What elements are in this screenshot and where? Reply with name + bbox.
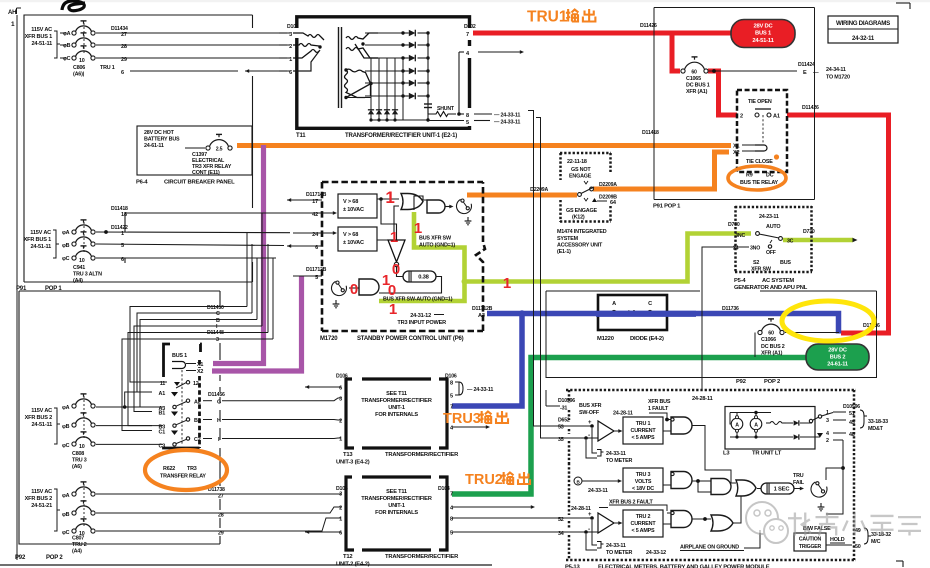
svg-text:1: 1 [121,231,124,237]
wire 28 to T11 pin 2 [96,44,290,46]
svg-text:0: 0 [392,261,400,278]
delay loop wire [379,277,442,294]
TRU 1 CURRENT box [623,417,663,444]
svg-text:B2: B2 [194,418,201,424]
svg-text:2: 2 [826,438,829,444]
svg-text:(K12): (K12) [572,215,585,221]
transformer core [338,27,340,108]
svg-text:-31: -31 [560,406,567,412]
wire lime S2 output [783,238,853,243]
svg-text:MD&T: MD&T [868,426,884,432]
wires G H I to T13 [222,398,341,401]
svg-text:10: 10 [79,58,85,64]
svg-text:33-18-33: 33-18-33 [868,419,888,425]
svg-text:C941: C941 [73,265,85,271]
middle AND gate [711,479,731,495]
svg-text:A1: A1 [773,114,780,120]
svg-text:AH: AH [8,10,16,16]
svg-text:24-28-11: 24-28-11 [692,396,713,402]
svg-text:(A6): (A6) [72,464,82,470]
vertical collector rails [370,58,372,120]
svg-text:—: — [813,70,819,76]
T13 transformer rectifier unit-3 box [346,379,447,448]
OR gate U-a [401,194,423,210]
svg-text:D2209A: D2209A [599,182,617,188]
svg-text:XFR (A1): XFR (A1) [686,89,708,95]
wire to 24-34-11 TO M1720 [709,70,797,72]
svg-text:6: 6 [339,531,342,537]
svg-text:6: 6 [121,70,124,76]
svg-text:< 5 AMPS: < 5 AMPS [632,435,656,441]
svg-text:POP 2: POP 2 [764,379,780,385]
svg-text:TRU 2: TRU 2 [72,542,87,548]
svg-text:P5-13: P5-13 [565,565,580,568]
green capsule 28V DC BUS 2 [806,344,869,370]
svg-text:D104: D104 [336,486,348,492]
orange ellipse around R622 [145,450,227,490]
svg-text:H: H [217,418,221,424]
circuit breaker C1397 2.5A [206,146,210,150]
svg-text:UNIT-1: UNIT-1 [388,405,405,411]
svg-text:1: 1 [826,410,829,416]
OR gate C [711,515,733,531]
svg-text:BUS: BUS [780,260,791,266]
svg-text:C807: C807 [72,536,84,542]
P5-13 module checkered border [566,389,856,392]
svg-text:50: 50 [855,544,861,550]
svg-text:C1066: C1066 [761,337,776,343]
svg-text:P92: P92 [15,555,26,561]
AND A3 output [692,518,711,520]
svg-text:TR3 INPUT POWER: TR3 INPUT POWER [397,320,446,326]
svg-text:V > 68: V > 68 [343,232,358,238]
svg-text:3NO: 3NO [750,246,760,252]
svg-text:24-33-12: 24-33-12 [646,550,666,556]
svg-text:28V DC HOT: 28V DC HOT [144,130,175,136]
svg-text:POP 2: POP 2 [46,555,63,561]
svg-text:5: 5 [450,531,453,537]
svg-text:24-51-11: 24-51-11 [32,422,53,428]
AND A1 output wire [692,426,736,484]
svg-text:TRU 3: TRU 3 [72,458,87,464]
svg-text:C: C [216,311,220,317]
svg-text:BUS XFR: BUS XFR [579,403,602,409]
svg-text:TO M1720: TO M1720 [826,75,850,81]
svg-text:D11426: D11426 [640,23,657,29]
wire red A1 down right side [787,115,889,333]
svg-text:24-33-11: 24-33-11 [606,543,626,549]
svg-text:29: 29 [121,57,127,63]
svg-text:DC BUS 2: DC BUS 2 [761,344,785,350]
inverter [388,240,405,262]
module TRU3 volts [574,477,582,485]
S2 switch checkered box [734,206,737,273]
svg-text:11: 11 [160,381,166,387]
AND gate U-b [427,200,445,213]
svg-text:D2209A: D2209A [530,187,548,193]
svg-text:2: 2 [740,114,743,120]
svg-text:BUS 1: BUS 1 [172,353,187,359]
wire lime M1720 internal [379,212,465,301]
svg-text:24-34-11: 24-34-11 [826,67,846,73]
svg-text:28V DC: 28V DC [828,348,847,354]
svg-text:TRU3: TRU3 [443,411,481,427]
T12 pin8 wire to 52 [452,517,560,519]
T11 pin8/5 wires to 24-33-11 [474,113,492,115]
svg-text:3: 3 [289,32,292,38]
svg-text:XFR BUS: XFR BUS [648,399,671,405]
svg-text:TRANSFORMER/RECTIFIER: TRANSFORMER/RECTIFIER [361,398,432,404]
svg-text:CIRCUIT BREAKER PANEL: CIRCUIT BREAKER PANEL [164,180,235,186]
wire red TRU1 output [473,31,731,36]
decorative ink swirl top [62,1,85,11]
wire red drop to C1065 [672,33,680,71]
3NO wire down [702,247,741,390]
svg-text:— 24-33-11: — 24-33-11 [467,387,493,393]
svg-text:D11712B: D11712B [306,267,327,273]
svg-text:(A4): (A4) [73,278,83,284]
svg-text:SEE T11: SEE T11 [386,391,407,397]
rotary switch top (bus xfr sw) [457,199,472,213]
wire blue over diode box [596,311,696,317]
svg-text:24-51-11: 24-51-11 [32,41,53,47]
svg-text:24: 24 [733,246,739,252]
svg-text:1: 1 [389,301,397,318]
svg-text:1: 1 [390,229,398,246]
svg-text:M1720: M1720 [320,336,338,342]
svg-text:TIE OPEN: TIE OPEN [748,99,772,105]
svg-text:TO METER: TO METER [606,550,632,556]
svg-text:24-51-11: 24-51-11 [752,38,774,44]
svg-text:10: 10 [79,258,85,264]
svg-text:P6-4: P6-4 [136,180,148,186]
svg-text:± 10VAC: ± 10VAC [343,240,364,246]
R9 coil [755,145,767,151]
R622 transfer relay frame [164,344,201,448]
svg-text:TO METER: TO METER [606,458,632,464]
svg-text:CONT (E11): CONT (E11) [192,170,220,176]
svg-text:V > 68: V > 68 [343,199,358,205]
T11 primary wye winding [293,33,324,40]
svg-text:-: - [588,432,590,439]
svg-text:T12: T12 [343,554,352,560]
svg-text:6: 6 [339,386,342,392]
svg-text:φC: φC [62,443,70,449]
AND gate A1 [671,417,692,434]
svg-text:A2: A2 [194,399,201,405]
P6-4 circuit breaker panel box [137,126,252,175]
R622 contact B2-B3 to H [186,418,189,421]
svg-text:60: 60 [691,69,697,75]
wire 5 [96,244,284,246]
svg-text:53: 53 [558,425,564,431]
T11 pin4 output arrow [478,51,520,53]
svg-text:D106: D106 [445,374,457,380]
P92 right connector box [546,291,877,378]
T13 pin4 arrow [452,426,486,428]
connector box P91 top-left [24,15,253,282]
svg-text:AIRPLANE ON GROUND: AIRPLANE ON GROUND [680,545,739,551]
svg-text:DC: DC [766,173,774,179]
wire 6b [96,257,276,259]
svg-text:18: 18 [121,212,127,218]
svg-text:± 10VAC: ± 10VAC [343,207,364,213]
svg-text:28: 28 [218,513,224,519]
yellow highlight ellipse [782,301,874,341]
svg-text:C808: C808 [72,451,84,457]
svg-text:φB: φB [63,43,71,49]
svg-text:1: 1 [289,57,292,63]
svg-text:7: 7 [450,492,453,498]
svg-text:24-33-11: 24-33-11 [606,451,626,457]
svg-text:P91 POP 1: P91 POP 1 [653,204,681,210]
svg-text:TRANSFER RELAY: TRANSFER RELAY [160,474,206,480]
svg-text:FAIL: FAIL [793,480,805,486]
wire purple 2 to X2 [212,276,302,371]
svg-text:C806: C806 [73,65,85,71]
svg-text:1: 1 [385,188,394,207]
svg-text:A: A [612,301,616,307]
svg-text:HOLD: HOLD [830,537,845,543]
svg-text:D11456: D11456 [208,392,225,398]
svg-text:C1: C1 [159,430,166,436]
T12 transformer rectifier unit-2 box [346,477,447,550]
svg-text:5: 5 [121,243,124,249]
WIRING DIAGRAMS title block [828,16,898,43]
watermark text [788,513,921,536]
wire red C1065 to relay contact [708,71,737,115]
T13 8/5 ref brace [455,382,459,395]
svg-text:φB: φB [62,512,70,518]
svg-text:D11714B: D11714B [306,192,327,198]
R622 contact C2-C3 to I [186,437,189,440]
C1066 breaker DC BUS 2 [754,333,756,358]
svg-text:(A4): (A4) [72,549,82,555]
wire orange B D11714B to GS switch to X2 [467,193,577,198]
24-33-11 TO METER ref 1 [592,428,597,453]
svg-text:AUTO: AUTO [766,224,780,230]
svg-text:WIRING DIAGRAMS: WIRING DIAGRAMS [836,20,890,27]
svg-text:BUS XFR SW: BUS XFR SW [419,236,452,242]
bottom dc bus [371,119,428,121]
svg-text:TRANSFORMER/RECTIFIER: TRANSFORMER/RECTIFIER [385,554,459,560]
svg-text:M1220: M1220 [597,336,614,342]
svg-text:51: 51 [849,411,855,417]
svg-text:XFR BUS 2: XFR BUS 2 [25,415,53,421]
svg-text:27: 27 [218,494,224,500]
svg-text:B1: B1 [159,411,166,417]
svg-text:A3: A3 [478,313,485,319]
svg-text:φA: φA [63,31,71,37]
wire blue junction down to T13 pin7 [452,314,522,407]
pin5 wire [428,120,464,122]
svg-text:OFF: OFF [766,250,776,256]
svg-text:T13: T13 [343,452,353,458]
svg-text:1: 1 [503,275,511,292]
T13 pin6 arrow [305,386,341,388]
svg-text:TRU 3 ALTN: TRU 3 ALTN [73,272,102,278]
svg-text:0: 0 [388,282,396,299]
svg-text:48: 48 [849,432,855,438]
svg-text:T11: T11 [296,133,306,139]
svg-text:5: 5 [450,394,453,400]
svg-text:3: 3 [339,492,342,498]
comparator V>68 box 1 [338,194,377,218]
M1474 checkered box top part [560,152,611,155]
svg-text:2: 2 [339,419,342,425]
R9 bus tie relay box [737,90,787,172]
svg-text:φB: φB [62,243,70,249]
svg-text:CURRENT: CURRENT [631,521,657,527]
svg-text:GS NOT: GS NOT [571,167,591,173]
svg-text:R9: R9 [746,173,753,179]
svg-text:22-11-18: 22-11-18 [567,159,587,165]
relay actuate dashed [181,370,183,444]
svg-text:C1065: C1065 [686,76,701,82]
AND gate A3 [671,511,692,528]
svg-text:0.38: 0.38 [418,275,429,281]
svg-text:TRU: TRU [793,473,804,479]
svg-text:24-33-11: 24-33-11 [588,488,608,494]
orange dot near TIE CLOSE [774,154,779,159]
bus bracket [60,32,66,34]
svg-text:D102: D102 [464,24,476,30]
svg-text:2: 2 [289,44,292,50]
svg-text:BATTERY BUS: BATTERY BUS [144,137,180,143]
svg-text:ENGAGE: ENGAGE [569,174,592,180]
svg-text:1: 1 [339,437,342,443]
vertical bus wires to relay labels [228,306,247,308]
svg-text:1: 1 [11,21,15,28]
svg-text:BUS 1: BUS 1 [755,31,772,37]
svg-text:R622: R622 [163,466,175,472]
svg-text:24-51-11: 24-51-11 [31,244,52,250]
red capsule 28V DC BUS 1 [731,20,795,48]
svg-text:TRU2: TRU2 [465,472,503,488]
P91 right connector box [653,8,655,200]
svg-text:D102: D102 [287,24,299,30]
wire purple 1 to X1 [213,145,264,364]
svg-text:UNIT-2 (E4-2): UNIT-2 (E4-2) [336,562,370,568]
svg-text:SYSTEM: SYSTEM [557,236,579,242]
svg-text:D11424: D11424 [798,62,815,68]
R622 contact A2-A3 to G [186,399,189,402]
svg-text:GS ENGAGE: GS ENGAGE [566,208,597,214]
svg-text:D10596: D10596 [843,404,860,410]
R622 coil [172,362,186,369]
svg-text:D11418: D11418 [642,130,659,136]
svg-text:C: C [648,301,652,307]
bottom page line [0,564,492,566]
L3 TR UNIT LT box [725,407,815,450]
svg-text:φB: φB [62,424,70,430]
svg-text:FOR INTERNALS: FOR INTERNALS [375,510,418,516]
svg-text:φA: φA [62,405,70,411]
T12 pin4 arrow [452,506,531,508]
svg-text:10: 10 [79,444,85,450]
svg-text:UNIT-1: UNIT-1 [388,503,405,509]
svg-text:< 5 AMPS: < 5 AMPS [632,528,656,534]
svg-text:ACCESSORY UNIT: ACCESSORY UNIT [557,243,603,249]
svg-text:TRU 3: TRU 3 [636,472,651,478]
svg-text:XFR SW: XFR SW [751,267,772,273]
svg-text:A: A [754,423,758,429]
svg-text:115V AC: 115V AC [31,27,52,33]
svg-text:φC: φC [63,56,71,62]
svg-text:1: 1 [414,220,422,237]
comparator V>68 box 2 [338,227,377,251]
svg-text:— 24-33-11: — 24-33-11 [494,113,520,119]
svg-text:CAUTION: CAUTION [799,537,822,543]
svg-text:G: G [217,399,221,405]
svg-text:7: 7 [450,405,453,411]
svg-text:FOR INTERNALS: FOR INTERNALS [375,412,418,418]
svg-text:SEE T11: SEE T11 [386,489,407,495]
scan edge shading top [0,0,930,2]
T11 secondary delta winding [345,70,366,98]
svg-text:D10596: D10596 [558,398,575,404]
T11 transformer/rectifier unit-1 box [297,17,470,129]
svg-text:4: 4 [826,431,829,437]
wires comparator to gates [377,198,399,200]
svg-text:24-61-11: 24-61-11 [144,143,164,149]
wire lime to S2 [465,234,752,282]
wire 6 from T11 pin 6, arrow [130,70,238,72]
svg-text:CURRENT: CURRENT [631,428,657,434]
svg-text:D104: D104 [438,486,450,492]
svg-text:1 SEC: 1 SEC [774,487,791,493]
opamp 2 [598,513,614,533]
svg-text:P92: P92 [736,379,746,385]
svg-text:BUS 2: BUS 2 [830,355,846,361]
watermark wechat icon [746,502,788,543]
svg-text:6: 6 [289,70,292,76]
M1220 diode box [598,295,667,330]
AND gate A2 [671,472,692,489]
svg-text:XFR BUS 1: XFR BUS 1 [25,34,53,40]
svg-text:X2: X2 [197,369,203,375]
svg-text:DIODE (E4-2): DIODE (E4-2) [630,336,664,342]
delay 0.38 [403,271,436,282]
svg-text:5: 5 [466,120,469,126]
svg-text:(E1-1): (E1-1) [557,249,571,255]
svg-text:φC: φC [62,530,70,536]
svg-text:6: 6 [121,257,124,263]
svg-text:TR UNIT LT: TR UNIT LT [752,451,782,457]
pin2 wire down [826,440,843,514]
wire weave from top to relay [130,307,228,383]
lower freewheel diodes [368,110,374,115]
svg-text:-: - [588,526,590,533]
svg-text:49: 49 [855,528,861,534]
pin4 internal wire [459,51,464,53]
svg-text:3: 3 [216,337,219,343]
svg-text:3: 3 [339,397,342,403]
svg-text:D730: D730 [803,229,815,235]
svg-text:24-28-11: 24-28-11 [613,411,633,417]
svg-text:(A6)|: (A6)| [73,72,85,78]
svg-text:D11736: D11736 [722,306,739,312]
long reference verticals [528,111,549,427]
svg-text:AC SYSTEM: AC SYSTEM [762,278,794,284]
svg-text:STANDBY POWER CONTROL UNIT (P6: STANDBY POWER CONTROL UNIT (P6) [357,336,464,342]
svg-text:24-23-11: 24-23-11 [759,214,779,220]
svg-text:BUS TIE RELAY: BUS TIE RELAY [740,180,779,186]
svg-text:D730: D730 [728,222,740,228]
wire 29 to T11 pin 1 [96,57,290,59]
T11 rectifier diodes and rails [365,32,403,34]
1 SEC delay [761,483,794,494]
